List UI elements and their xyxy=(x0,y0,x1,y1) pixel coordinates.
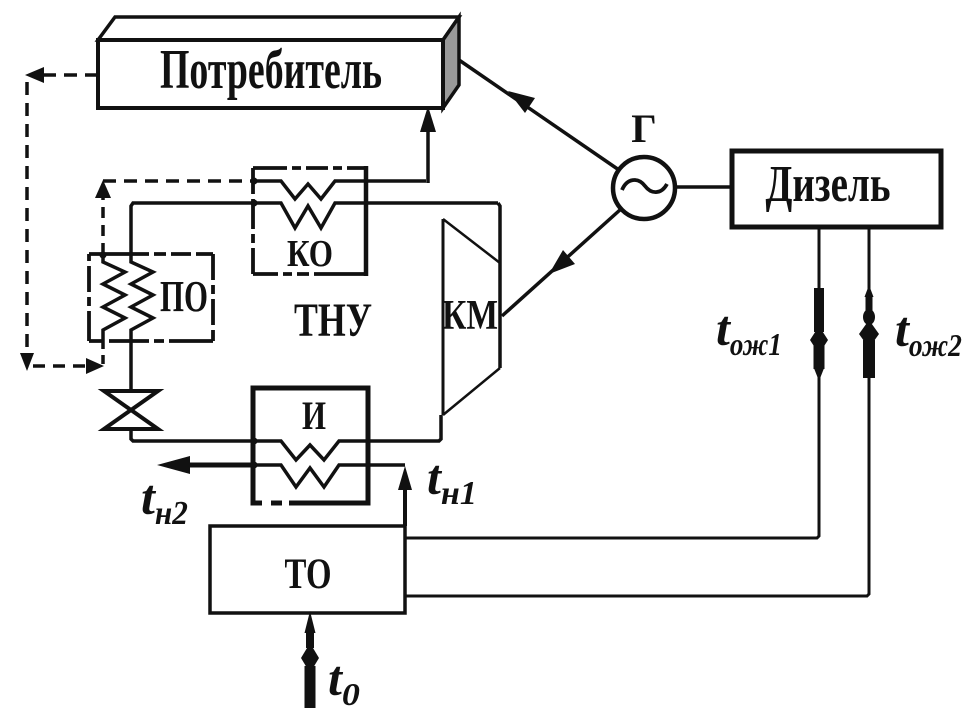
svg-text:КМ: КМ xyxy=(442,293,498,339)
evaporator I box xyxy=(253,388,368,503)
svg-text:t0: t0 xyxy=(328,650,360,712)
I upper pipe zigzag xyxy=(253,441,368,460)
coolant return wire xyxy=(405,227,869,596)
node I left lower xyxy=(251,462,258,469)
generator tilde xyxy=(622,180,667,192)
dashed arrow right xyxy=(86,358,104,374)
condenser KO box xyxy=(253,166,366,276)
expansion valve xyxy=(104,391,158,410)
arrow to consumer xyxy=(508,91,535,113)
node PO top xyxy=(100,252,107,259)
svg-text:Потребитель: Потребитель xyxy=(160,39,382,101)
consumer box side face xyxy=(443,17,459,108)
out arrow head xyxy=(157,456,190,474)
wire up to consumer xyxy=(426,128,430,183)
dashed wire PO top to arrow xyxy=(101,196,105,254)
wire G to consumer diagonal xyxy=(459,60,619,170)
node I left upper xyxy=(251,438,258,445)
wire G to KM diagonal xyxy=(502,209,621,316)
wire valve to evaporator xyxy=(131,429,253,441)
svg-text:ПО: ПО xyxy=(160,272,208,321)
flow marker up tozh2 xyxy=(859,285,879,378)
svg-text:tн2: tн2 xyxy=(141,469,188,532)
dashed wire from consumer left xyxy=(40,73,98,77)
arrow up tn1 xyxy=(398,466,412,490)
dashed wire left vertical xyxy=(25,82,29,352)
wire KO to compressor down xyxy=(498,203,500,368)
arrow into consumer xyxy=(420,106,436,132)
I lower pipe zigzag xyxy=(253,465,368,487)
PO left zigzag xyxy=(103,254,125,341)
arrow to KM xyxy=(549,250,575,274)
dashed arrow up to KO level xyxy=(95,180,111,198)
wire PO to valve xyxy=(129,341,133,391)
svg-text:ТО: ТО xyxy=(285,551,332,598)
riser TO to I xyxy=(403,478,407,526)
preheater PO box xyxy=(89,254,213,341)
wire G to Diesel xyxy=(674,185,732,189)
node at KO left upper xyxy=(251,178,258,185)
heat source TO box xyxy=(210,526,405,613)
svg-text:КО: КО xyxy=(287,233,333,275)
coolant out wire xyxy=(405,227,819,538)
dashed wire up into PO xyxy=(101,341,105,364)
dashed wire to KO left xyxy=(103,179,253,183)
svg-text:Г: Г xyxy=(631,106,656,151)
KO lower pipe zigzag xyxy=(253,203,498,228)
flow marker down tozh1 xyxy=(810,288,828,381)
dashed arrow down xyxy=(20,353,34,371)
dashed wire bottom horizontal xyxy=(33,364,88,368)
gaps in I box bottom border xyxy=(262,500,271,507)
svg-text:Дизель: Дизель xyxy=(766,156,891,213)
wire I to compressor xyxy=(368,415,441,441)
KO upper pipe zigzag xyxy=(253,181,426,199)
svg-text:ТНУ: ТНУ xyxy=(294,294,372,347)
svg-text:tож2: tож2 xyxy=(895,301,962,363)
node at KO left lower xyxy=(251,200,258,207)
flow marker up t0 xyxy=(301,611,319,708)
compressor KM xyxy=(443,219,500,415)
svg-text:И: И xyxy=(302,393,326,438)
PO right zigzag xyxy=(131,254,153,341)
svg-text:tн1: tн1 xyxy=(427,449,477,512)
consumer box front face xyxy=(98,40,443,108)
wire KO lower to left xyxy=(131,203,253,254)
diesel box xyxy=(732,151,941,227)
generator G circle xyxy=(613,157,675,219)
out arrow shaft tn2 xyxy=(186,463,254,468)
consumer box Потребитель (3D) top face xyxy=(98,17,459,40)
svg-text:tож1: tож1 xyxy=(716,300,782,362)
wire I lower to TO riser xyxy=(368,463,405,467)
dashed arrow left xyxy=(25,67,44,83)
